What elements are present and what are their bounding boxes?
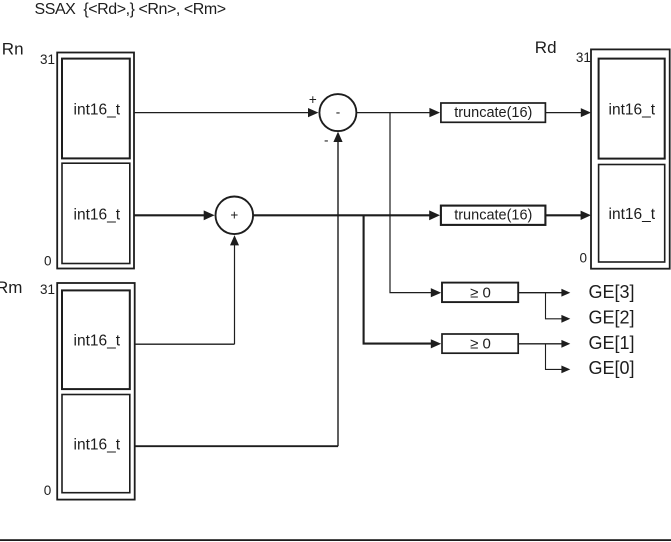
svg-text:31: 31 bbox=[40, 282, 55, 297]
svg-text:GE[0]: GE[0] bbox=[589, 358, 635, 378]
svg-text:int16_t: int16_t bbox=[74, 333, 121, 350]
svg-text:≥ 0: ≥ 0 bbox=[470, 285, 491, 302]
svg-text:SSAX {<Rd>,} <Rn>, <Rm>: SSAX {<Rd>,} <Rn>, <Rm> bbox=[35, 1, 226, 18]
svg-text:GE[1]: GE[1] bbox=[589, 333, 635, 353]
svg-text:truncate(16): truncate(16) bbox=[454, 208, 532, 224]
svg-text:int16_t: int16_t bbox=[74, 102, 121, 119]
svg-text:GE[3]: GE[3] bbox=[589, 282, 635, 302]
svg-text:Rm: Rm bbox=[0, 278, 22, 297]
svg-text:Rn: Rn bbox=[2, 40, 24, 59]
svg-text:+: + bbox=[309, 92, 317, 107]
svg-text:-: - bbox=[324, 133, 329, 148]
svg-text:int16_t: int16_t bbox=[74, 437, 121, 454]
svg-text:int16_t: int16_t bbox=[609, 206, 656, 223]
svg-text:≥ 0: ≥ 0 bbox=[470, 336, 491, 353]
svg-text:int16_t: int16_t bbox=[74, 206, 121, 223]
svg-text:+: + bbox=[230, 207, 238, 222]
svg-text:0: 0 bbox=[44, 253, 52, 268]
svg-text:Rd: Rd bbox=[535, 38, 557, 57]
svg-text:0: 0 bbox=[44, 483, 52, 498]
svg-text:-: - bbox=[336, 104, 341, 119]
svg-text:int16_t: int16_t bbox=[609, 102, 656, 119]
svg-text:31: 31 bbox=[576, 50, 591, 65]
svg-text:0: 0 bbox=[579, 251, 587, 266]
svg-text:31: 31 bbox=[40, 52, 55, 67]
svg-text:GE[2]: GE[2] bbox=[589, 307, 635, 327]
svg-text:truncate(16): truncate(16) bbox=[454, 105, 532, 121]
